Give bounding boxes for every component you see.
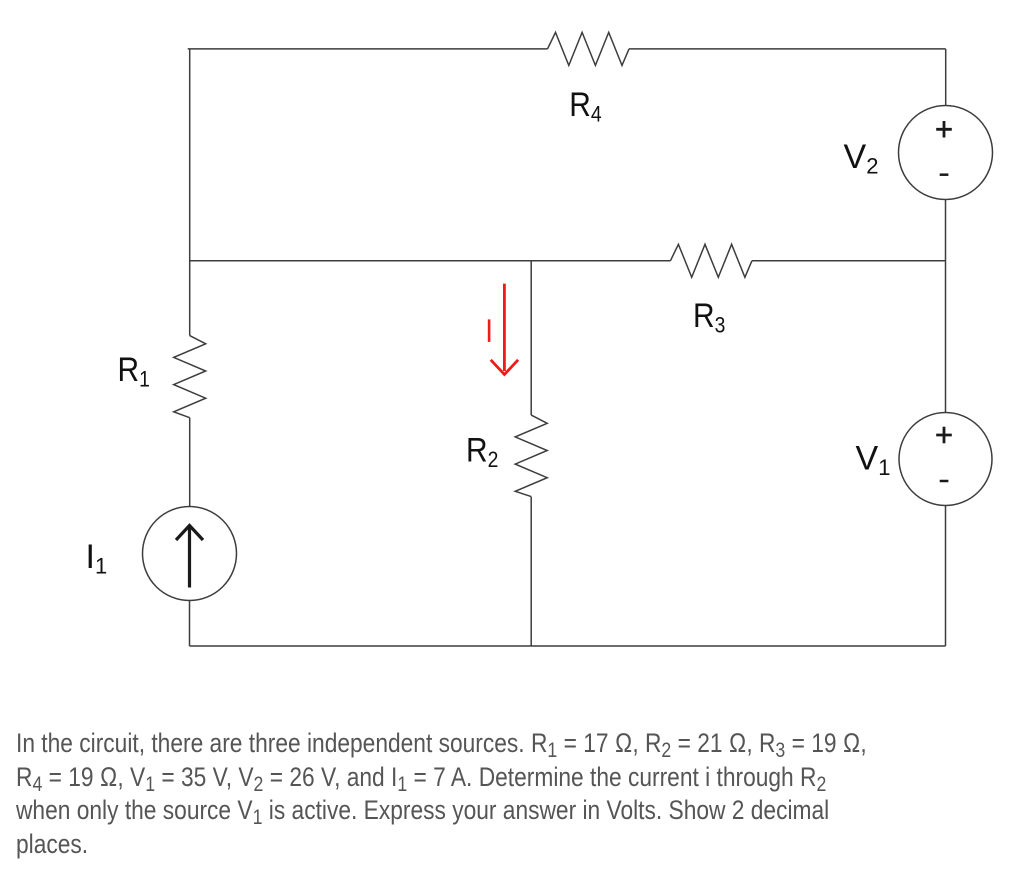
V2 minus sign: [940, 173, 949, 176]
wire middle horizontal left segment: [190, 260, 671, 262]
resistor R4: [548, 32, 630, 65]
wire right rail V2 to V1: [945, 200, 947, 413]
wire middle horizontal right segment: [752, 260, 946, 262]
svg-text:R2: R2: [466, 431, 498, 473]
wire R2 to bottom: [530, 497, 532, 646]
wire right rail top to V2: [945, 49, 947, 106]
svg-text:R3: R3: [693, 296, 725, 338]
resistor R2: [515, 415, 547, 497]
wire left rail top to R1: [189, 49, 191, 336]
resistor R3: [670, 244, 752, 277]
V1 minus sign: [940, 480, 949, 483]
current arrow I (red): [491, 284, 518, 375]
wire R1 to I1: [189, 418, 191, 507]
question paragraph: [16, 728, 1024, 860]
current source I1: [143, 507, 237, 601]
resistor R1: [174, 336, 206, 418]
wire top-left horizontal segment: [188, 48, 548, 50]
wire I1 to bottom: [189, 601, 191, 647]
I1 arrow: [176, 526, 203, 588]
wire middle vertical top (node to R2): [530, 261, 532, 415]
V2 plus sign: [936, 121, 952, 138]
voltage source V2: [899, 106, 993, 200]
svg-text:R1: R1: [118, 350, 150, 392]
svg-text:V1: V1: [856, 440, 891, 481]
svg-text:V2: V2: [844, 138, 879, 179]
wire top-right horizontal segment: [629, 48, 946, 50]
svg-text:R4: R4: [569, 85, 601, 127]
svg-text:I1: I1: [86, 538, 108, 579]
voltage source V1: [899, 413, 992, 506]
V1 plus sign: [936, 427, 952, 444]
label I (red): [488, 319, 491, 342]
wire right rail V1 to bottom: [945, 506, 947, 647]
wire bottom horizontal: [190, 645, 946, 647]
